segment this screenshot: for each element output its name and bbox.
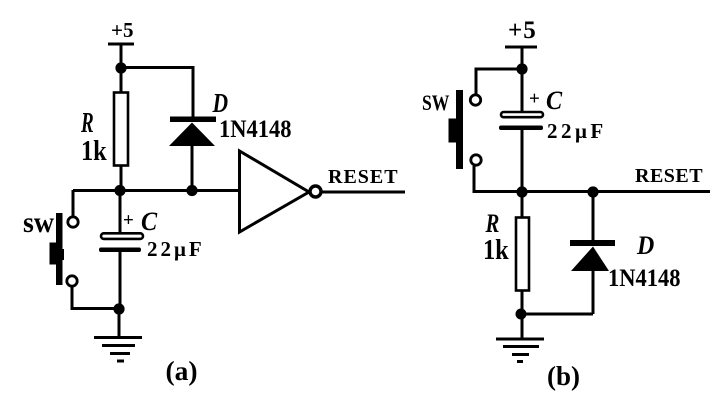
svg-text:D: D bbox=[636, 232, 654, 260]
svg-text:1N4148: 1N4148 bbox=[608, 265, 681, 292]
svg-text:RESET: RESET bbox=[328, 166, 399, 188]
svg-text:+5: +5 bbox=[508, 17, 537, 44]
svg-text:C: C bbox=[141, 208, 157, 236]
svg-text:+5: +5 bbox=[111, 18, 133, 42]
svg-text:RESET: RESET bbox=[635, 165, 703, 187]
svg-text:22μF: 22μF bbox=[547, 119, 607, 143]
svg-text:+: + bbox=[123, 210, 134, 231]
svg-text:1k: 1k bbox=[483, 234, 509, 265]
svg-text:1N4148: 1N4148 bbox=[219, 116, 292, 143]
svg-text:D: D bbox=[212, 89, 229, 119]
svg-text:(b): (b) bbox=[547, 361, 580, 391]
svg-text:R: R bbox=[80, 109, 94, 139]
svg-text:+: + bbox=[529, 89, 540, 110]
svg-text:1k: 1k bbox=[81, 135, 107, 166]
svg-text:22μF: 22μF bbox=[147, 237, 205, 261]
svg-text:SW: SW bbox=[422, 91, 449, 115]
svg-text:C: C bbox=[546, 87, 562, 115]
svg-text:(a): (a) bbox=[166, 355, 198, 386]
svg-text:sw: sw bbox=[23, 206, 54, 239]
